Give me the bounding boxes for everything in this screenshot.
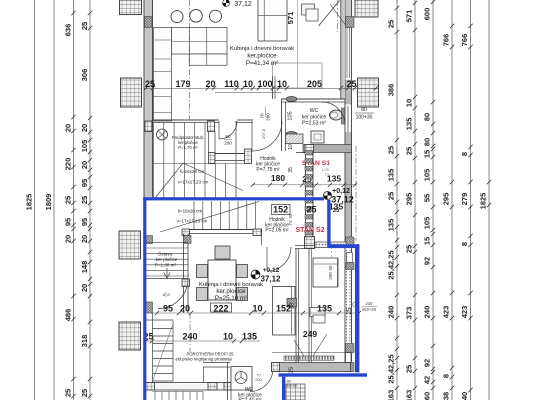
hatch block kitchen S2 wall bbox=[182, 279, 190, 287]
level marker S1 top bbox=[223, 0, 230, 7]
svg-text:ker.pločice: ker.pločice bbox=[216, 288, 246, 295]
svg-text:8: 8 bbox=[442, 374, 451, 378]
wall stub south of predprostor bbox=[215, 153, 245, 155]
box around 222 bbox=[211, 303, 232, 312]
svg-text:90+30: 90+30 bbox=[286, 384, 297, 388]
right wall solid mid bbox=[346, 132, 352, 237]
svg-text:8: 8 bbox=[460, 152, 469, 156]
wall connector line b bbox=[214, 132, 216, 154]
kitchen S1 counter top strip bbox=[172, 28, 228, 55]
svg-text:571: 571 bbox=[405, 10, 414, 23]
svg-text:373: 373 bbox=[405, 307, 414, 320]
window glazing line living room b bbox=[349, 28, 351, 79]
svg-text:80: 80 bbox=[423, 138, 432, 146]
svg-text:25: 25 bbox=[405, 365, 414, 373]
shaft hatch blocks in S1/S2 wall bbox=[305, 151, 313, 156]
svg-text:v=17x17,23 cm: v=17x17,23 cm bbox=[177, 219, 208, 224]
wall hodnik S2 north bbox=[182, 229, 262, 231]
right wall hatch block 1 bbox=[346, 17, 355, 28]
WC S1 west wall inner bbox=[285, 102, 287, 151]
sideboard S1 square 2 bbox=[306, 9, 318, 21]
svg-text:15: 15 bbox=[423, 150, 432, 158]
svg-text:20: 20 bbox=[80, 124, 89, 132]
svg-text:P=1,80 m²: P=1,80 m² bbox=[155, 262, 176, 267]
svg-text:STAN S2: STAN S2 bbox=[295, 227, 324, 234]
radiator hatch WC S1 bbox=[286, 134, 304, 144]
right wall inner grey band upper bbox=[341, 0, 345, 99]
stair door arc below ostava bbox=[158, 279, 188, 309]
washing machine S2 bbox=[231, 367, 252, 391]
right dimension line R1 bbox=[396, 0, 398, 400]
right dimension line R5 bbox=[470, 0, 472, 400]
svg-text:8: 8 bbox=[460, 242, 469, 246]
svg-text:92: 92 bbox=[423, 359, 432, 367]
door threshold oval 2 bbox=[286, 132, 297, 137]
dining table S2 bbox=[208, 260, 236, 300]
svg-text:10: 10 bbox=[288, 144, 294, 150]
predprostor door arc bbox=[219, 121, 237, 139]
svg-text:P=1,70 m²: P=1,70 m² bbox=[178, 145, 198, 150]
axis line S2 bbox=[189, 313, 191, 352]
small circle marker bbox=[353, 303, 357, 307]
svg-text:š=16x28 cm: š=16x28 cm bbox=[180, 169, 205, 174]
svg-text:179: 179 bbox=[175, 79, 190, 89]
svg-text:95: 95 bbox=[80, 179, 89, 187]
svg-text:110: 110 bbox=[224, 79, 239, 89]
stairs down right edge bbox=[172, 321, 174, 382]
right dimension line R6 bbox=[488, 0, 490, 400]
svg-text:15: 15 bbox=[423, 237, 432, 245]
window dotted line 2 bedroom bbox=[349, 250, 351, 343]
window glazing line living room a bbox=[346, 28, 348, 79]
sliding door diagonals bbox=[294, 340, 304, 356]
svg-text:25: 25 bbox=[387, 20, 396, 28]
living S2 east wall line b bbox=[298, 249, 300, 363]
svg-text:25: 25 bbox=[387, 192, 396, 200]
left wall hatch at ostava wall bbox=[145, 302, 153, 313]
exterior steps below wall bbox=[154, 392, 156, 401]
right wall hatch block 4 bbox=[346, 363, 355, 372]
living room divider line S1 bbox=[297, 0, 299, 88]
guide dashed bedroom bbox=[331, 243, 333, 258]
blue outline S2: shower vertical bbox=[282, 377, 285, 400]
svg-text:766: 766 bbox=[460, 34, 469, 47]
sideboard S1 square 1 bbox=[302, 4, 315, 15]
svg-text:163: 163 bbox=[405, 390, 414, 400]
svg-text:70: 70 bbox=[256, 374, 260, 378]
svg-text:25: 25 bbox=[80, 22, 89, 30]
axis line entry S1 bbox=[337, 0, 339, 32]
svg-text:636: 636 bbox=[64, 24, 73, 37]
svg-text:200: 200 bbox=[224, 141, 232, 146]
svg-text:105: 105 bbox=[288, 111, 294, 120]
left dimension line L2 bbox=[53, 0, 55, 400]
svg-text:386: 386 bbox=[387, 84, 396, 97]
living room rug S1 bbox=[273, 63, 323, 88]
svg-text:37,12: 37,12 bbox=[260, 275, 281, 284]
left exterior wall outer line bbox=[143, 0, 145, 400]
svg-text:55: 55 bbox=[423, 194, 432, 202]
left dim ticks bbox=[71, 11, 75, 15]
kitchen S1 counter left strip bbox=[154, 28, 172, 122]
svg-text:279: 279 bbox=[460, 193, 469, 206]
svg-text:148: 148 bbox=[80, 261, 89, 274]
short wall stub above WC a bbox=[272, 76, 274, 99]
svg-text:80: 80 bbox=[361, 107, 367, 113]
ostava bottom wall line bbox=[144, 278, 188, 280]
right dimension line R4 bbox=[451, 0, 453, 400]
level marker S2 living bbox=[251, 270, 260, 279]
svg-text:135: 135 bbox=[387, 219, 396, 232]
svg-text:95: 95 bbox=[80, 218, 89, 226]
blue outline S2: hall horizontal bbox=[327, 244, 359, 248]
kitchen S1 cooktop burner 3 bbox=[210, 10, 222, 22]
svg-text:25: 25 bbox=[405, 147, 414, 155]
svg-text:40: 40 bbox=[460, 392, 469, 400]
svg-text:423: 423 bbox=[442, 306, 451, 319]
sliding door track line bbox=[272, 352, 345, 354]
wall south hodnik S2 bbox=[295, 245, 315, 247]
svg-text:25: 25 bbox=[405, 245, 414, 253]
WC S1 west wall outer bbox=[281, 99, 283, 151]
hodnik S2 west wall line bbox=[261, 230, 263, 246]
dim chain S2 lower bbox=[144, 340, 260, 342]
right dim ticks bbox=[395, 6, 399, 10]
WC S2 west wall bbox=[227, 363, 229, 401]
stairs S1 upper flight steps bbox=[153, 123, 155, 198]
svg-text:486: 486 bbox=[64, 309, 73, 322]
hatch bottom wall 2 bbox=[208, 383, 217, 391]
svg-text:25: 25 bbox=[80, 196, 89, 204]
kitchen S2 west wall line b bbox=[187, 234, 189, 314]
pillar right second bbox=[358, 78, 379, 107]
right exterior wall outer line bbox=[351, 0, 353, 372]
washbasin S1 bbox=[311, 131, 324, 143]
left dimension line L4 bbox=[89, 0, 91, 400]
svg-text:152: 152 bbox=[273, 205, 288, 215]
svg-text:10: 10 bbox=[252, 304, 262, 314]
ventilation fan symbol bbox=[157, 129, 168, 140]
svg-text:-zid preko negrijanog prostori: -zid preko negrijanog prostorija bbox=[174, 357, 232, 362]
svg-text:v=17x17,23 cm: v=17x17,23 cm bbox=[178, 180, 209, 185]
dim chain kitchen S1 bbox=[144, 88, 378, 90]
partition kitchen S2 / bedroom bbox=[308, 249, 310, 363]
pillar stub at hodnik bbox=[245, 149, 252, 164]
blue outline S2: hall vertical bbox=[327, 200, 330, 246]
sliding door hatched bar bbox=[285, 356, 334, 359]
chair left2 S2 bbox=[197, 288, 208, 301]
svg-text:240: 240 bbox=[423, 306, 432, 319]
svg-text:105: 105 bbox=[80, 140, 89, 153]
pillar stub right of predprostor bbox=[208, 121, 215, 132]
hatch bottom right wall 1 bbox=[272, 363, 280, 372]
svg-text:163: 163 bbox=[387, 390, 396, 400]
svg-text:WC: WC bbox=[310, 108, 319, 114]
bed S2 bbox=[313, 258, 338, 287]
pillar stub left at wall bbox=[209, 153, 216, 164]
kitchen S2 west wall line a bbox=[183, 234, 185, 314]
svg-text:35: 35 bbox=[288, 213, 293, 219]
svg-text:90: 90 bbox=[328, 265, 333, 271]
svg-text:P=41,34 m²: P=41,34 m² bbox=[246, 60, 278, 67]
kitchen S2 counter bbox=[273, 287, 296, 336]
hatch bottom wall 1 bbox=[146, 383, 155, 391]
blue outline S2: bottom horizontal bbox=[279, 373, 368, 376]
svg-text:318: 318 bbox=[80, 335, 89, 348]
svg-text:25: 25 bbox=[64, 196, 73, 204]
svg-text:571: 571 bbox=[286, 12, 295, 25]
gallery edge line above hodnik bbox=[215, 92, 282, 94]
kitchen S1 counter lower row bbox=[189, 54, 227, 65]
svg-text:35: 35 bbox=[333, 208, 340, 214]
axis line right bbox=[355, 146, 357, 241]
svg-text:220: 220 bbox=[64, 158, 73, 171]
radiator on bedroom window wall bbox=[347, 253, 353, 263]
svg-text:P=2,53 m²: P=2,53 m² bbox=[302, 121, 326, 127]
WC S2 void edge line bbox=[203, 367, 205, 383]
svg-text:240: 240 bbox=[387, 306, 396, 319]
sofa S1 bbox=[258, 0, 287, 41]
toilet tank bbox=[342, 108, 346, 124]
svg-text:20: 20 bbox=[80, 284, 89, 292]
svg-text:1809: 1809 bbox=[44, 194, 53, 211]
svg-text:135: 135 bbox=[317, 304, 332, 314]
chair left1 S2 bbox=[197, 265, 208, 278]
stairs diagonal guide bbox=[153, 324, 174, 381]
svg-text:37,12: 37,12 bbox=[234, 1, 252, 8]
stairs down S2 steps bbox=[153, 328, 174, 330]
svg-text:25,42,25: 25,42,25 bbox=[387, 354, 396, 383]
svg-text:ker pločice: ker pločice bbox=[156, 257, 178, 262]
svg-text:25: 25 bbox=[289, 367, 295, 373]
svg-text:38: 38 bbox=[290, 303, 296, 309]
svg-text:ker.pločice: ker.pločice bbox=[247, 53, 277, 60]
blue outline S2: right vertical bbox=[355, 244, 359, 372]
kitchen S1 cooktop burner 1 bbox=[171, 11, 183, 23]
kitchen S1 cooktop burner 2 bbox=[190, 10, 203, 23]
stair landing line bbox=[154, 163, 245, 165]
right wall solid at pillar 2 bbox=[346, 80, 352, 105]
level marker S1 hall bbox=[324, 192, 332, 200]
door arc hodnik S2 to living bbox=[267, 247, 291, 271]
svg-text:306: 306 bbox=[80, 69, 89, 82]
svg-text:š=16x28 cm: š=16x28 cm bbox=[178, 209, 203, 214]
svg-text:295: 295 bbox=[405, 193, 414, 206]
stairs S2 diagonal bbox=[160, 202, 259, 233]
svg-text:25: 25 bbox=[64, 389, 73, 397]
nightstand S2 b bbox=[313, 315, 325, 323]
hatch block living S2 east wall bbox=[287, 299, 297, 308]
ostava stair step lines bbox=[146, 241, 188, 243]
pillar right top bbox=[355, 0, 378, 17]
wall south of WC S1 grey band bbox=[303, 145, 352, 153]
pillar left bottom bbox=[119, 322, 141, 350]
hodnik S1 entry door arc bbox=[252, 121, 282, 151]
svg-text:Ostava: Ostava bbox=[158, 252, 173, 257]
wall between doors bbox=[237, 119, 253, 121]
svg-text:105: 105 bbox=[423, 217, 432, 230]
chair right1 S2 bbox=[237, 265, 248, 278]
svg-text:20: 20 bbox=[64, 124, 73, 132]
svg-text:240: 240 bbox=[366, 301, 374, 306]
door threshold oval 1 bbox=[286, 96, 297, 101]
stairs down top edge bbox=[144, 319, 173, 321]
svg-text:95: 95 bbox=[163, 304, 173, 314]
pillar in wall south of WC bbox=[305, 145, 314, 153]
right wall segment above terrace door bbox=[346, 353, 352, 363]
WC S2 door arc bbox=[250, 369, 273, 392]
svg-text:73: 73 bbox=[288, 220, 293, 226]
svg-text:80: 80 bbox=[423, 113, 432, 121]
chair right2 S2 bbox=[237, 288, 248, 301]
dim line hodnik S1 bbox=[252, 184, 356, 186]
svg-text:295: 295 bbox=[442, 193, 451, 206]
svg-text:20: 20 bbox=[180, 304, 190, 314]
svg-text:205: 205 bbox=[307, 79, 322, 89]
wall connector line a bbox=[208, 132, 210, 153]
svg-text:25: 25 bbox=[387, 146, 396, 154]
svg-text:P=2,05 m²: P=2,05 m² bbox=[265, 228, 289, 234]
wall predprostor north line a bbox=[153, 119, 220, 121]
svg-text:600: 600 bbox=[423, 8, 432, 21]
svg-text:60: 60 bbox=[225, 134, 231, 139]
svg-text:249: 249 bbox=[303, 329, 317, 339]
hatch block below radiator bbox=[346, 263, 354, 270]
svg-text:25: 25 bbox=[306, 205, 316, 215]
pillar stub left of predprostor bbox=[145, 121, 152, 132]
left dimension line L3 bbox=[73, 0, 75, 400]
svg-text:1825: 1825 bbox=[25, 194, 34, 211]
svg-text:+0,12: +0,12 bbox=[263, 267, 280, 274]
ostava arrow down bbox=[166, 268, 168, 277]
wall S1 hall east line bbox=[312, 153, 314, 246]
svg-text:60: 60 bbox=[423, 392, 432, 400]
svg-text:25,42,25: 25,42,25 bbox=[387, 250, 396, 279]
svg-text:20: 20 bbox=[80, 235, 89, 243]
stair S1 right edge bbox=[235, 121, 237, 198]
svg-text:135: 135 bbox=[387, 169, 396, 182]
nightstand S2 a bbox=[310, 308, 325, 317]
svg-text:20: 20 bbox=[80, 161, 89, 169]
WC S2 north wall bbox=[203, 362, 230, 364]
left wall hatch block bbox=[145, 17, 153, 28]
svg-text:10: 10 bbox=[277, 79, 287, 89]
toilet S1 bbox=[330, 110, 343, 120]
svg-text:20: 20 bbox=[64, 235, 73, 243]
svg-text:42: 42 bbox=[423, 376, 432, 384]
svg-text:92: 92 bbox=[423, 257, 432, 265]
right dimension line R2 bbox=[414, 0, 416, 400]
svg-text:200: 200 bbox=[255, 378, 261, 382]
window dotted line 1 bedroom bbox=[346, 250, 348, 343]
axis line kitchen S1 bbox=[189, 0, 191, 120]
right wall hatch block 3 bbox=[346, 344, 355, 353]
WC S1 door arc bbox=[322, 102, 345, 125]
box around 152 bbox=[272, 205, 291, 215]
svg-text:250+30: 250+30 bbox=[362, 307, 377, 312]
svg-text:135: 135 bbox=[242, 332, 257, 342]
dotted partition wall bedroom bbox=[315, 242, 346, 248]
hatch kitchen S2 wall top bbox=[184, 236, 192, 244]
stairs down left edge bbox=[152, 313, 154, 390]
left wall inner below kitchen bbox=[152, 88, 154, 121]
right wall hatch block 2 bbox=[346, 237, 355, 248]
chair top S2 bbox=[215, 246, 230, 259]
left exterior wall inner line (upper) bbox=[152, 0, 154, 198]
right exterior wall inner line bbox=[344, 0, 346, 372]
left wall grey fill bbox=[145, 0, 153, 197]
hatch block wall right end bbox=[253, 229, 262, 236]
svg-text:25: 25 bbox=[347, 307, 353, 314]
stair S1 walk guide lines bbox=[154, 163, 184, 200]
dim chain S2 upper bbox=[146, 312, 360, 314]
blue outline S2: top horizontal bbox=[143, 197, 324, 200]
svg-text:70: 70 bbox=[260, 113, 265, 119]
hatch block wall left end bbox=[182, 229, 190, 236]
svg-text:38: 38 bbox=[442, 392, 451, 400]
shower tiled area bbox=[286, 384, 305, 400]
svg-text:100+30: 100+30 bbox=[356, 115, 373, 121]
svg-text:25: 25 bbox=[80, 389, 89, 397]
living S2 east wall line a bbox=[295, 249, 297, 363]
pillar left upper-mid bbox=[121, 78, 142, 107]
svg-text:73: 73 bbox=[325, 172, 330, 177]
window glazing line WC S1 bbox=[347, 106, 349, 132]
left wall hatch at hodnik wall bbox=[145, 236, 153, 244]
svg-text:P=25,10 m²: P=25,10 m² bbox=[215, 295, 247, 302]
svg-text:35: 35 bbox=[288, 167, 294, 173]
svg-text:200: 200 bbox=[266, 113, 271, 121]
svg-text:180: 180 bbox=[271, 173, 285, 183]
svg-text:10: 10 bbox=[243, 79, 253, 89]
svg-text:95: 95 bbox=[64, 218, 73, 226]
right wall solid top bbox=[346, 0, 352, 17]
svg-text:423: 423 bbox=[460, 306, 469, 319]
right dimension line R3 bbox=[432, 0, 434, 400]
pillar left top bbox=[120, 0, 142, 15]
wall top of WC S1 bbox=[282, 98, 346, 100]
stairs S2 flight steps bbox=[193, 201, 195, 230]
svg-text:766: 766 bbox=[442, 34, 451, 47]
svg-text:Kuhinja i dnevni boravak: Kuhinja i dnevni boravak bbox=[230, 46, 294, 52]
pillar at hodnik S2 corner bbox=[305, 237, 315, 249]
left dimension line L1 bbox=[34, 0, 36, 400]
svg-text:105: 105 bbox=[423, 169, 432, 182]
svg-text:10: 10 bbox=[223, 332, 233, 342]
entry door S1 leaf line bbox=[330, 4, 346, 25]
blue outline S2: left vertical bbox=[143, 197, 146, 400]
hatch bottom wall 3 bbox=[224, 383, 233, 391]
svg-text:200: 200 bbox=[328, 272, 333, 280]
svg-text:207,8: 207,8 bbox=[261, 128, 266, 139]
entry door S1 swing line bbox=[319, 1, 340, 27]
wall S1 hall west line bbox=[305, 153, 307, 246]
pillar left lower-mid bbox=[119, 231, 141, 259]
svg-text:1825: 1825 bbox=[479, 193, 488, 210]
bottom wall band left bbox=[145, 383, 233, 391]
bottom wall band right grey bbox=[272, 363, 351, 372]
svg-text:135: 135 bbox=[405, 118, 414, 131]
svg-text:10: 10 bbox=[405, 99, 414, 107]
